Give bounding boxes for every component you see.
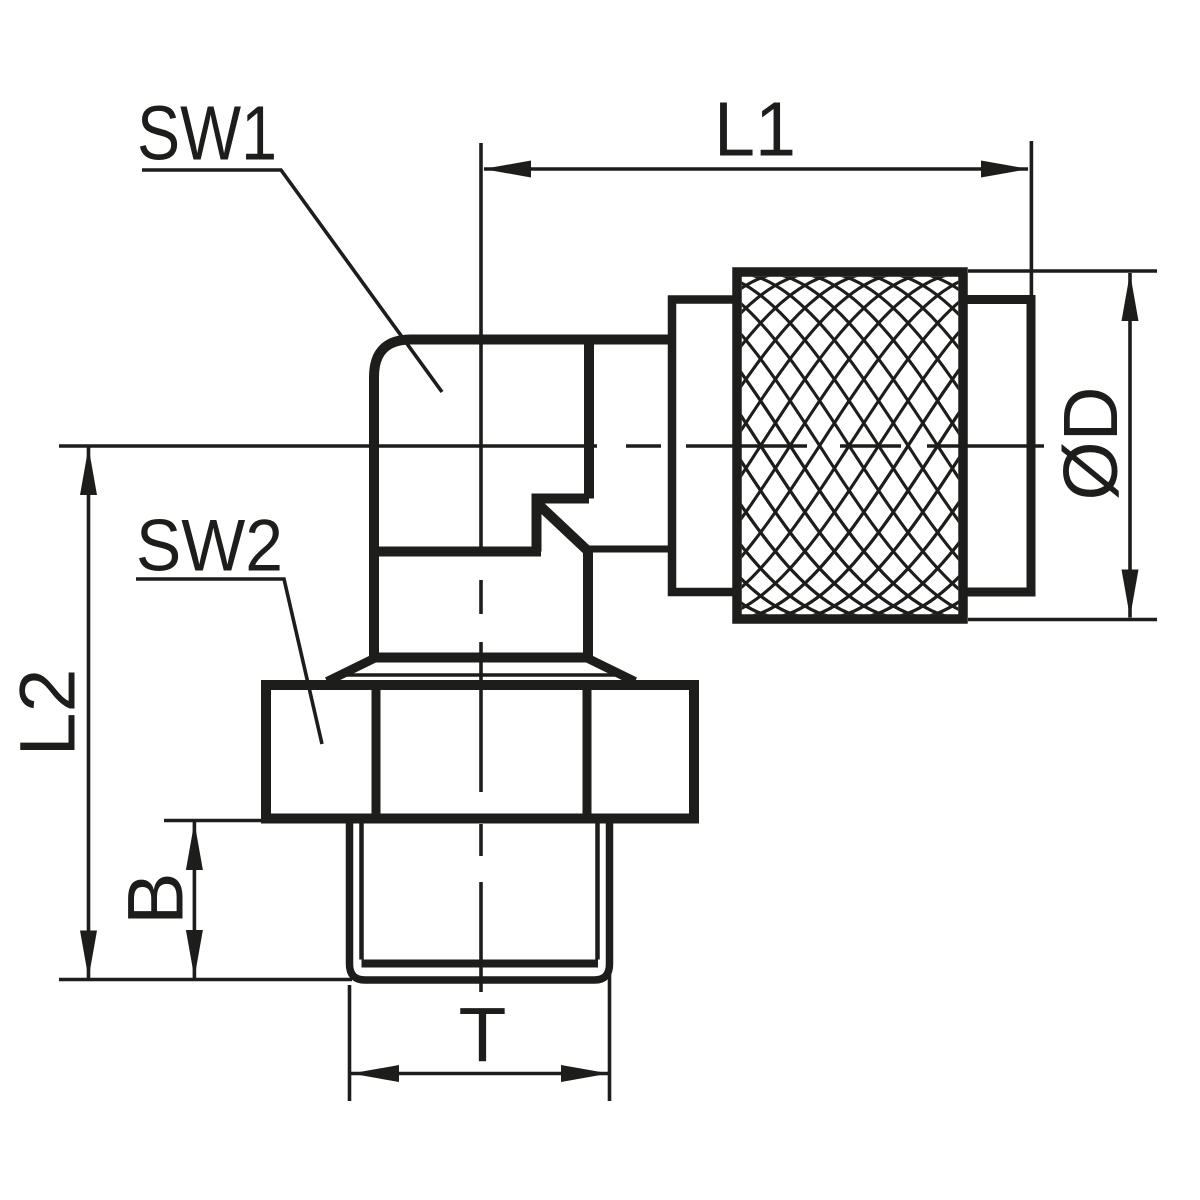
leader line SW2 <box>136 579 322 744</box>
hex nut SW2 face edges <box>376 690 587 814</box>
arrowhead B down <box>186 930 203 978</box>
dimension line L1 <box>484 167 1028 171</box>
leader line SW1 <box>142 170 442 392</box>
extension line T right <box>608 967 612 1101</box>
elbow body nut step vertical edge <box>584 340 594 499</box>
neck cylinder right <box>963 300 1031 593</box>
threaded stud outer contour <box>350 821 610 980</box>
cone silhouette line <box>346 673 616 677</box>
arrowhead L2 up <box>80 447 97 495</box>
centerline horizontal axis <box>59 444 1044 448</box>
threaded stud core lines <box>362 821 598 960</box>
horizontal branch bottom edge <box>588 546 672 553</box>
arrowhead L2 down <box>80 931 97 979</box>
elbow body chamfer diagonal <box>538 504 589 552</box>
shoulder line above cone flare <box>374 653 588 663</box>
cone flare diagonals <box>327 658 635 682</box>
extension line L2 bottom <box>59 978 352 982</box>
arrowhead B up <box>186 822 203 870</box>
centerline vertical axis <box>479 143 483 992</box>
elbow body outline <box>374 340 672 658</box>
dimension line B <box>193 822 197 978</box>
svg-text:T: T <box>459 992 507 1078</box>
svg-text:B: B <box>111 872 200 925</box>
neck cylinder left <box>672 300 737 593</box>
svg-text:L1: L1 <box>714 86 796 172</box>
extension line T left <box>348 985 352 1101</box>
elbow body bottom edge <box>374 547 541 557</box>
extension line B top <box>164 819 263 823</box>
svg-text:L2: L2 <box>3 669 92 757</box>
elbow body step notch <box>537 499 590 552</box>
arrowhead OD up <box>1122 273 1139 321</box>
threaded stud end face <box>362 960 599 968</box>
extension line L1 right <box>1030 141 1034 299</box>
dimension line OD <box>1128 273 1132 618</box>
svg-text:ØD: ØD <box>1048 387 1134 501</box>
knurled union nut SW1 outline <box>737 272 963 619</box>
extension line OD top <box>968 269 1157 273</box>
arrowhead OD down <box>1122 570 1139 618</box>
arrowhead T right <box>561 1065 609 1082</box>
arrowhead T left <box>351 1065 399 1082</box>
hex nut SW2 outline <box>266 685 694 819</box>
svg-text:SW2: SW2 <box>136 506 283 587</box>
dimension line T <box>351 1072 609 1076</box>
dimension line L2 <box>87 447 91 979</box>
arrowhead L1 right <box>981 161 1029 178</box>
arrowhead L1 left <box>483 161 531 178</box>
extension line OD bottom <box>968 618 1157 622</box>
svg-text:SW1: SW1 <box>137 91 277 177</box>
vertical branch right edge <box>583 552 593 658</box>
